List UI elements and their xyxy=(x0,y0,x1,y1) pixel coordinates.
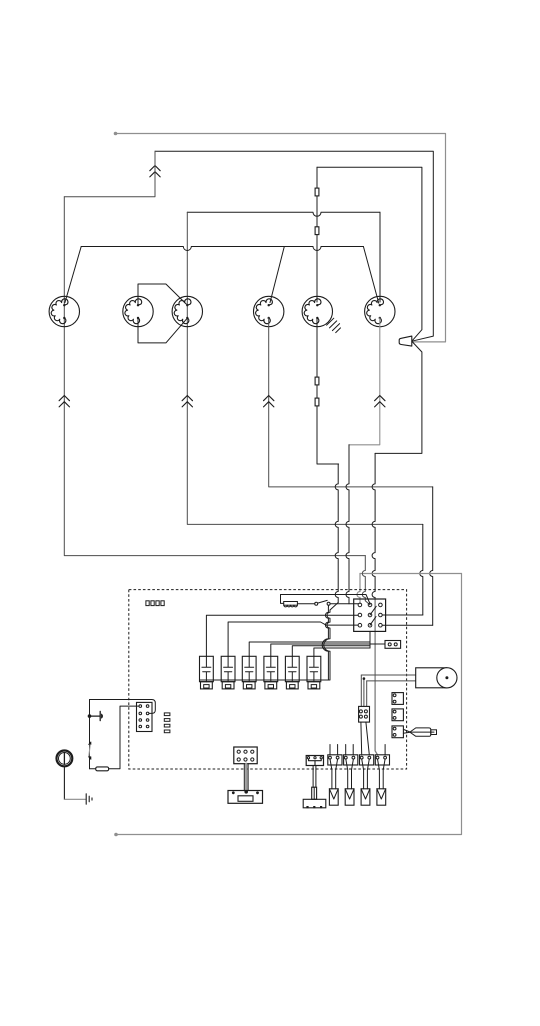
chevron harness arrow A xyxy=(150,166,160,177)
wire C feed drop xyxy=(430,487,433,625)
connector CN5 xyxy=(375,755,389,765)
connector CN2a xyxy=(306,756,323,766)
connector CN4 xyxy=(360,755,374,765)
wire flexible segment xyxy=(89,745,90,757)
resistor R1 xyxy=(96,767,109,771)
ribbon cable CN11 xyxy=(245,764,247,791)
wire SW5 lead xyxy=(292,646,370,657)
wire switch drop to bus xyxy=(327,605,329,607)
wire motor lead 2 xyxy=(367,680,416,682)
wire K1 bottom drop xyxy=(369,631,371,648)
spark module cap xyxy=(399,336,412,346)
wire mid horizontal y212 xyxy=(187,212,380,216)
wire spark module drop lower xyxy=(372,453,375,599)
igniter B3 xyxy=(172,296,202,326)
wire CN4 blade leads xyxy=(362,759,370,789)
relay K1 terminals xyxy=(358,603,362,607)
blade terminal CN5 xyxy=(377,789,386,805)
wire c3 feed vertical xyxy=(187,212,422,524)
wire third rail xyxy=(317,167,422,341)
wire SW1 lead xyxy=(206,615,358,656)
wire igniter6 drop lower xyxy=(346,445,349,604)
node N2 dot xyxy=(114,833,118,837)
tick mark 1 xyxy=(89,742,91,745)
motor M1 xyxy=(416,668,447,688)
wire A into K1 xyxy=(362,556,365,601)
chevron harness arrow B xyxy=(59,396,69,407)
igniter B5 xyxy=(302,296,332,326)
bead F3 xyxy=(315,377,319,385)
connector CN9 xyxy=(392,709,403,721)
plug P2 xyxy=(228,791,263,804)
connector CN2 xyxy=(328,755,342,765)
chevron harness arrow E xyxy=(375,396,385,407)
wire SW6 lead xyxy=(314,648,370,656)
element switch SW4 xyxy=(264,656,278,681)
element switch SW1 xyxy=(200,656,214,681)
wire switch to K1 xyxy=(330,603,358,605)
wire right rail horizontal xyxy=(360,573,462,575)
chevron harness arrow D xyxy=(264,396,274,407)
blade terminal CN4 xyxy=(361,789,370,805)
wire diag to igniter6 xyxy=(363,247,378,304)
wire inductor left xyxy=(281,595,284,604)
wire diag to igniter4 xyxy=(270,247,284,303)
connector CN3 xyxy=(344,755,358,765)
connector CN11 xyxy=(234,747,257,764)
wire bus y246 xyxy=(81,247,363,251)
lamp PL1 xyxy=(57,751,73,767)
wire CN1 wrap lead xyxy=(90,700,156,714)
element switch SW5 xyxy=(285,656,299,681)
node cap junction xyxy=(88,714,92,718)
wire CN6 riser 1 xyxy=(360,675,362,706)
wire B feed into relay K1 xyxy=(382,614,423,616)
igniter B6 xyxy=(365,296,395,326)
wire motor lead 1 xyxy=(361,674,415,676)
wire CN2 blade leads xyxy=(330,759,338,789)
blade terminal CN2 xyxy=(329,789,338,805)
igniter B4 xyxy=(254,296,284,326)
wire CN2 feed 2 xyxy=(337,745,339,755)
connector CN6 xyxy=(359,706,370,722)
wire spark module drop xyxy=(375,341,422,453)
igniter B2 xyxy=(123,296,153,326)
wire CN4 feed 1 xyxy=(360,722,363,755)
DIP marks xyxy=(146,601,149,606)
wire resistor to CN1 xyxy=(109,706,139,769)
bead F2 xyxy=(315,227,319,235)
bead F1 xyxy=(315,188,319,196)
wire igniter4 drop xyxy=(269,318,433,487)
wire CN5 blade leads xyxy=(378,759,386,789)
wire L1 top rail to spark module xyxy=(116,134,446,342)
capacitor C1 xyxy=(90,711,101,720)
wire loop B2-B3 bottom xyxy=(138,318,187,343)
wire diag to igniter1 xyxy=(65,247,81,303)
igniter B1 xyxy=(49,296,79,326)
chassis ground xyxy=(86,794,92,804)
wire B feed drop xyxy=(420,524,423,615)
spark ground hatch xyxy=(327,318,341,332)
wire C feed into relay K1 xyxy=(382,624,433,626)
wire left circuit vertical xyxy=(89,700,91,769)
wire CN2a plug leads xyxy=(313,766,316,788)
wire igniter5 drop xyxy=(317,318,339,464)
node L1 supply dot xyxy=(114,132,118,136)
bead F4 xyxy=(315,398,319,406)
wire lamp to ground xyxy=(63,766,65,799)
switch S1 xyxy=(315,602,318,605)
chevron harness arrow C xyxy=(182,396,192,407)
wire CN3 feed 1 xyxy=(345,745,347,755)
wire c6 feed from y212 xyxy=(379,212,381,302)
wire spark module drop behind K1 xyxy=(375,599,377,755)
wire bus across switches xyxy=(200,679,330,681)
element switch SW3 xyxy=(242,656,256,681)
wire igniter5 drop lower xyxy=(335,464,338,603)
control board dashed box xyxy=(129,590,407,769)
wire SW4 lead xyxy=(271,644,385,656)
relay K1 arm 2 xyxy=(370,617,376,626)
wire inductor to switch xyxy=(297,603,314,605)
element switch SW6 xyxy=(307,656,321,681)
connector CN8 xyxy=(392,693,403,705)
blade terminal CN3 xyxy=(345,789,354,805)
wire resistor left xyxy=(90,768,96,770)
wire CN2 feed 1 xyxy=(329,745,331,755)
wire center igniter feed upper xyxy=(316,167,318,302)
element switch SW2 xyxy=(221,656,235,681)
connector CN10 xyxy=(392,726,403,738)
relay K1 arm 1 xyxy=(370,606,376,615)
plug P1 xyxy=(303,799,326,808)
wire top second rail xyxy=(155,151,433,341)
connector CN7 xyxy=(385,641,401,649)
wire CN6 riser 3 xyxy=(366,681,368,707)
connector CN1 xyxy=(137,702,153,731)
relay block K1 xyxy=(354,599,386,631)
jumper pads xyxy=(164,713,170,716)
wire SW3 lead xyxy=(249,642,370,656)
wire right rail into K1 xyxy=(357,574,360,604)
tick mark 2 xyxy=(89,757,91,760)
wire right rail down xyxy=(116,574,462,835)
wire fuse leads xyxy=(403,729,410,733)
wire SW2 lead xyxy=(228,622,358,656)
wire igniter6 drop xyxy=(349,318,380,445)
wire CN5 feed 2 xyxy=(384,745,386,755)
wire CN3 feed 2 xyxy=(352,745,354,755)
wire CN4 feed 2 xyxy=(366,722,369,755)
wire loop B2-B3 top xyxy=(138,284,186,305)
wire left drop lower xyxy=(64,197,365,556)
wire CN3 blade leads xyxy=(346,759,354,789)
wire inductor feed xyxy=(281,595,371,605)
wire CN6 riser 2 xyxy=(363,679,365,707)
wire left drop upper xyxy=(64,151,155,197)
fuse holder F5 xyxy=(410,728,431,736)
inductor L1 xyxy=(284,602,298,606)
